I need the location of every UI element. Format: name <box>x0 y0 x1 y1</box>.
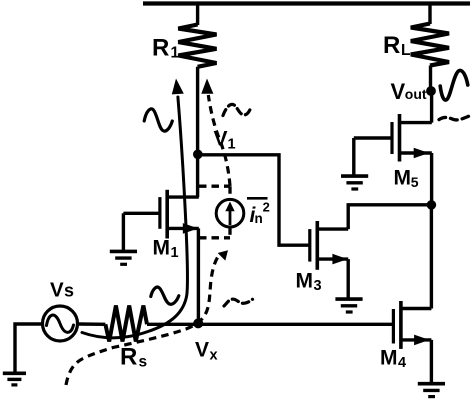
wire Vs to Rs <box>78 322 106 326</box>
ground (M3 source) <box>335 299 362 312</box>
svg-text:1: 1 <box>171 45 180 62</box>
transistor M4 <box>393 301 431 349</box>
resistor RL <box>411 24 449 66</box>
node V1 <box>193 150 203 160</box>
wire Vs left to ground <box>15 324 43 372</box>
node Vout <box>426 86 436 96</box>
ground (Vs) <box>3 373 26 385</box>
dashed squiggle right of Vout <box>439 116 469 120</box>
wire M5 source to node <box>430 153 433 205</box>
sine squiggle (signal at Vx) <box>151 287 179 304</box>
solid signal-path arrow (curved, Rs up to R1) <box>82 97 187 338</box>
wire M3 source to ground <box>347 259 350 298</box>
noise current source in2 <box>216 199 244 227</box>
svg-text:R: R <box>120 344 137 371</box>
label in2 (overbar) <box>247 197 268 200</box>
noise box (dashed) <box>199 186 230 238</box>
svg-text:n: n <box>255 211 263 226</box>
resistor R1 <box>178 25 216 67</box>
wire M4 source to ground <box>430 340 433 383</box>
svg-text:M: M <box>380 347 398 370</box>
svg-text:s: s <box>64 281 74 301</box>
wire M5 drain to Vout <box>430 91 433 123</box>
power rail VDD <box>143 1 470 5</box>
svg-text:1: 1 <box>171 245 179 261</box>
wire RL to Vout <box>429 66 432 92</box>
svg-text:3: 3 <box>314 278 322 294</box>
svg-text:out: out <box>405 86 427 102</box>
svg-text:V: V <box>195 339 209 362</box>
wire M3 drain to node <box>348 205 431 229</box>
svg-text:s: s <box>139 354 148 371</box>
transistor M1 <box>123 190 198 239</box>
wire node to M4 drain <box>430 205 433 309</box>
svg-text:2: 2 <box>263 200 270 215</box>
source Vs <box>43 306 78 341</box>
svg-text:M: M <box>153 237 171 260</box>
dashed squiggle right of R1 arrow <box>223 104 251 115</box>
transistor M3 <box>310 221 348 270</box>
wire rail to RL <box>428 4 431 25</box>
ground (M4 source) <box>418 384 445 397</box>
svg-text:4: 4 <box>398 355 406 371</box>
svg-text:L: L <box>401 42 410 59</box>
resistor Rs <box>105 306 147 342</box>
transistor M5 <box>354 114 432 162</box>
svg-text:R: R <box>152 35 169 62</box>
sine squiggle at Vout <box>440 70 468 100</box>
wire R1 to V1 and M1 drain <box>196 67 199 197</box>
wire M1 gate to ground <box>122 213 125 250</box>
dashed noise path (bottom, Vs to in2) <box>66 258 218 386</box>
dashed noise arrow (in2 up through R1) <box>208 95 230 186</box>
wire M1 source to Vx <box>197 228 200 323</box>
ground (M5 gate) <box>341 176 368 189</box>
svg-text:M: M <box>394 167 412 190</box>
sine squiggle (signal at M1 drain) <box>144 109 172 131</box>
dashed squiggle right of Vx <box>224 299 253 306</box>
node (M5 source / M3 drain / M4 drain) <box>427 200 437 210</box>
wire V1 to M3 gate <box>198 155 310 245</box>
svg-text:x: x <box>210 348 218 364</box>
svg-text:R: R <box>383 32 400 59</box>
svg-text:5: 5 <box>411 174 419 190</box>
wire rail to R1 <box>196 4 199 26</box>
wire Rs to Vx to M4 gate <box>147 323 393 326</box>
svg-text:M: M <box>296 270 314 293</box>
svg-text:V: V <box>50 279 64 302</box>
svg-text:V: V <box>391 79 406 104</box>
wire M5 gate to ground <box>352 138 355 175</box>
node Vx <box>193 318 203 328</box>
svg-text:1: 1 <box>228 137 236 153</box>
ground (M1 gate) <box>110 251 137 264</box>
